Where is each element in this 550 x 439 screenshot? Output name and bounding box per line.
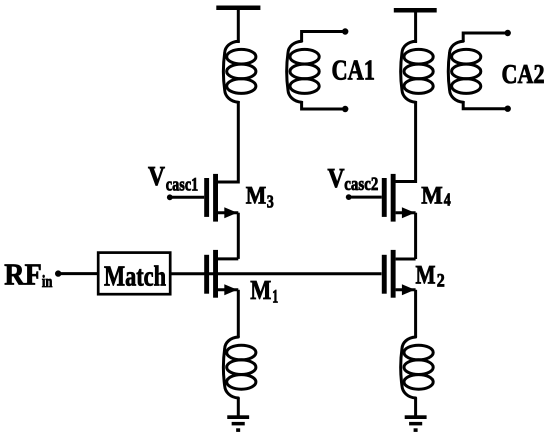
wire: L4 to ground	[414, 398, 417, 416]
transformer secondary coil CA2	[448, 41, 480, 102]
node: CA1 bottom terminal	[342, 106, 348, 112]
wire: supply to L2	[414, 12, 417, 44]
transformer secondary coil CA1	[287, 41, 319, 102]
supply rail T-bar (left)	[216, 6, 260, 11]
transistor M2 (input, right)	[382, 250, 416, 298]
svg-text:CA2: CA2	[502, 59, 545, 89]
wire: RF input to match network	[58, 272, 98, 275]
supply rail T-bar (right)	[394, 8, 437, 13]
svg-text:M: M	[246, 183, 266, 210]
node: CA1 top terminal	[342, 28, 348, 34]
inductor L3 (left degeneration)	[223, 337, 255, 398]
wire: M1 source to L3	[237, 290, 240, 337]
svg-text:casc2: casc2	[344, 174, 378, 195]
svg-text:M: M	[416, 260, 436, 289]
svg-text:V: V	[328, 163, 345, 193]
wire: M4 source to M2 drain	[414, 213, 417, 259]
transistor M4 (cascode, right)	[382, 174, 416, 222]
wire: V_casc1 to M3 gate	[170, 196, 204, 199]
svg-text:M: M	[250, 275, 271, 305]
svg-text:CA1: CA1	[332, 56, 376, 87]
svg-text:M: M	[421, 182, 443, 209]
inductor L4 (right degeneration)	[401, 337, 433, 398]
wire: CA2 top lead	[463, 33, 508, 42]
inductor L2 (right drain load, transformer primary)	[401, 41, 433, 102]
svg-text:V: V	[148, 161, 165, 191]
svg-text:2: 2	[437, 271, 445, 292]
wire: CA1 top lead	[302, 32, 346, 43]
wire: L3 to ground	[237, 398, 240, 416]
wire: CA1 bottom lead	[302, 101, 346, 109]
wire: L1 bottom to M3 drain	[218, 101, 238, 182]
svg-text:1: 1	[272, 287, 278, 308]
node: V_casc2	[346, 194, 352, 200]
ground (left)	[227, 415, 249, 432]
wire: V_casc2 to M4 gate	[349, 196, 382, 199]
node: CA2 top terminal	[505, 30, 511, 36]
svg-text:in: in	[42, 272, 53, 291]
wire: gate line from match to M1 and M2	[170, 272, 381, 275]
wire: supply to L1	[237, 9, 240, 43]
node: V_casc1	[167, 194, 173, 200]
wire: L2 bottom to M4 drain	[396, 101, 416, 182]
transistor M3 (cascode, left)	[204, 174, 238, 222]
svg-text:4: 4	[444, 190, 451, 210]
svg-text:3: 3	[267, 192, 274, 212]
wire: M2 source to L4	[414, 290, 417, 337]
match network box	[98, 253, 170, 295]
inductor L1 (left drain load, transformer primary)	[223, 41, 255, 102]
ground (right)	[405, 415, 427, 432]
node: RF input	[55, 270, 61, 276]
wire: CA2 bottom lead	[463, 101, 508, 109]
node: CA2 bottom terminal	[505, 106, 511, 112]
svg-text:Match: Match	[104, 260, 166, 292]
svg-text:RF: RF	[4, 257, 42, 292]
wire: M3 source to M1 drain	[237, 213, 240, 259]
svg-text:casc1: casc1	[166, 175, 199, 196]
transistor M1 (input, left)	[204, 250, 238, 298]
